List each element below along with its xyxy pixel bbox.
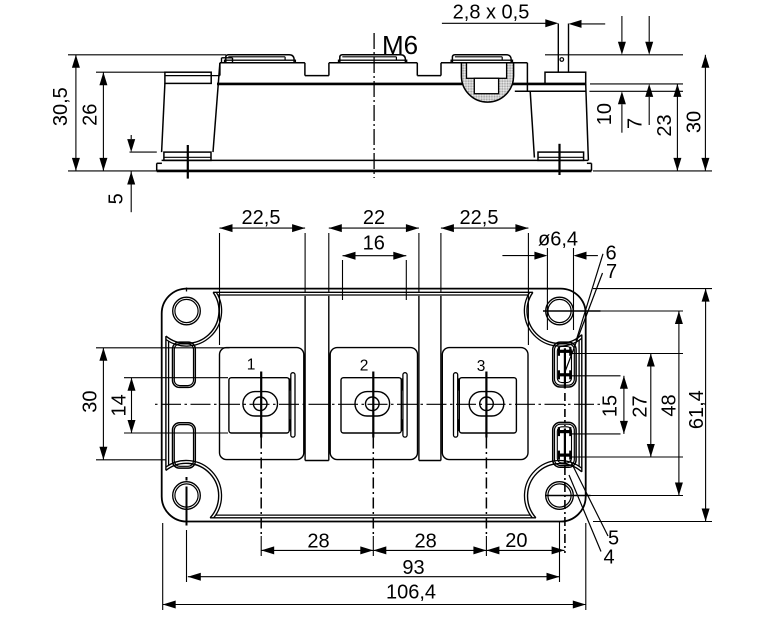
svg-text:22,5: 22,5 (460, 207, 499, 229)
dimension 93 (188, 576, 560, 578)
svg-text:48: 48 (658, 394, 680, 416)
side view: fast-on blade terminal 2,8x0,5 (557, 24, 559, 72)
side view: left mounting foot (164, 152, 211, 160)
side view: right case wall (inner, drafted) (530, 91, 534, 157)
svg-text:30,5: 30,5 (50, 87, 72, 126)
svg-text:27: 27 (629, 395, 651, 417)
side right dims: case edge extension (590, 83, 683, 85)
dimension 106,4 (163, 604, 586, 606)
dimension o6,4 arrows (502, 255, 534, 257)
side view: case top front edge (217, 83, 586, 86)
dimension 26 (102, 72, 104, 171)
svg-text:106,4: 106,4 (386, 582, 436, 604)
plan: upper auxiliary terminal block (553, 342, 576, 387)
dimension 27 (650, 354, 652, 458)
dimension 22,5 right ext lines (440, 233, 442, 293)
dimension 10 upper arrow (621, 16, 623, 42)
dimension 30 (side) (704, 55, 706, 171)
plan: mounting hole 4 o6.4 (546, 482, 574, 510)
side view: plateau segment 1 top (220, 62, 305, 64)
svg-text:10: 10 (594, 103, 616, 125)
plan: mounting hole 3 o6.4 (173, 482, 201, 510)
side view: case bottom edge (162, 159, 589, 161)
plan: bottom-left hole vertical centerline (186, 477, 188, 481)
dimension 5 foot line (130, 151, 157, 153)
label 7 leader (565, 273, 602, 371)
side right dims: baseplate bottom extension (593, 170, 712, 172)
side view: M6 thread centerline (373, 33, 375, 178)
svg-text:30: 30 (683, 111, 705, 133)
label 5 leader (570, 460, 608, 536)
dimension 30 (plan) (102, 348, 104, 460)
plan: mounting hole 2 o6.4 (546, 297, 574, 325)
svg-text:16: 16 (363, 233, 385, 255)
dimension 22,5 right (441, 227, 529, 229)
svg-text:2: 2 (360, 358, 369, 375)
dimension 61,4 ext lines (593, 288, 712, 290)
plan: top-right hole horizontal centerline (543, 310, 601, 312)
dimension 7 upper arrow (648, 16, 650, 42)
dimension 16 (343, 255, 407, 257)
dimension 5 upper arrow (130, 135, 132, 139)
dimension 28/28/20 ext lines (162, 523, 164, 610)
plan: terminal 1 vertical centerline (260, 372, 262, 438)
dimension 48 (678, 311, 680, 496)
svg-text:15: 15 (600, 395, 622, 417)
side right dims: top extension line (545, 54, 683, 56)
side view: left case wall (inner, drafted) (213, 63, 220, 152)
dimension 30,5 (75, 55, 77, 171)
side view: left flange tab (165, 72, 211, 83)
plan: terminal 3 plate and screw (459, 378, 516, 433)
side view: right flange tab (545, 72, 586, 84)
side view: right case section top (515, 90, 586, 92)
dimension 22,5 left ext lines (219, 233, 221, 345)
side view: right mounting screw centerline (558, 144, 560, 175)
plan: terminal 2 vertical centerline (372, 372, 374, 438)
plan: bottom-right hole vertical extension (559, 522, 561, 583)
side view: terminal 1 screw clamp cap (225, 60, 296, 63)
side view: terminal 3 screw clamp cap (451, 60, 512, 63)
svg-text:23: 23 (654, 114, 676, 136)
dimension 20 (486, 549, 564, 551)
svg-text:61,4: 61,4 (686, 390, 708, 429)
plan: terminal 2 plate and screw (341, 378, 401, 433)
plan: terminal zone 3 box (442, 348, 528, 460)
svg-text:3: 3 (477, 358, 486, 375)
dimension 7 lower arrow (648, 97, 650, 125)
plan: case inner contour (upper step, inner line) (218, 294, 528, 296)
plan: top-left hole centerline dot (186, 288, 188, 292)
svg-text:1: 1 (247, 357, 256, 374)
dimension 23 (676, 84, 678, 171)
side view: case top behind left tab (165, 75, 220, 77)
plan: module outer outline (162, 289, 586, 522)
svg-text:28: 28 (307, 531, 329, 553)
svg-text:5: 5 (105, 193, 127, 204)
plan: lower auxiliary terminal block (553, 422, 576, 467)
side view: left case wall (outer, drafted) (162, 83, 165, 152)
plan: left auxiliary slot 2 (173, 423, 196, 468)
label 6 leader (576, 254, 603, 341)
plan: terminal 1 plate and screw (229, 378, 289, 433)
plan: mounting hole 1 o6.4 (173, 297, 201, 325)
plan: terminal zone 1 box (220, 348, 304, 460)
dimension 61,4 (705, 289, 707, 522)
svg-text:30: 30 (79, 390, 101, 412)
svg-text:28: 28 (414, 531, 436, 553)
svg-text:ø6,4: ø6,4 (538, 229, 578, 251)
svg-text:7: 7 (606, 261, 617, 283)
side view: plateau segment 2 top (329, 62, 417, 64)
dimension 30,5 extension lines (68, 54, 226, 56)
plan: auxiliary terminals centerline (564, 348, 566, 388)
side view: baseplate outline (157, 170, 592, 173)
side view: left mounting screw centerline (187, 145, 189, 179)
plan: rib between zones 1-2 (304, 296, 306, 461)
dimension 16 ext lines (342, 260, 344, 300)
dimension 2,8x0,5 leader (442, 22, 546, 24)
dimension 10 lower arrow (621, 104, 623, 132)
dimension 28 (1) (261, 549, 373, 551)
svg-text:M6: M6 (382, 30, 418, 60)
dimension 28 (2) (373, 549, 486, 551)
svg-text:20: 20 (505, 530, 527, 552)
svg-text:2,8 x 0,5: 2,8 x 0,5 (453, 2, 530, 24)
svg-text:22: 22 (363, 207, 385, 229)
plan: terminal 3 vertical centerline (485, 372, 487, 438)
side view: terminal 2 screw clamp cap (339, 60, 407, 63)
dimension 2,8x0,5 right arrow (582, 23, 606, 25)
svg-text:14: 14 (108, 394, 130, 416)
dimension 22,5 left (220, 227, 306, 229)
dimension o6,4 ext lines (546, 248, 548, 330)
svg-text:4: 4 (603, 547, 614, 569)
side view: notch 2 (416, 63, 418, 76)
side view: notch 1 (304, 63, 306, 76)
side right dims: line at 91 extension (589, 90, 683, 92)
dimension 15 (623, 376, 625, 434)
plan: bottom-right hole horizontal centerline (545, 495, 591, 497)
side view: right case wall (outer, drafted) (586, 84, 589, 160)
dimension 5 lower arrow (130, 172, 132, 213)
dimension 26 extension line (96, 71, 165, 73)
pin extension lines right (571, 353, 683, 355)
svg-text:7: 7 (625, 118, 647, 129)
dimension 14 ext lines (124, 377, 228, 379)
dimension 30 ext lines (plan) (96, 347, 230, 349)
svg-text:93: 93 (402, 557, 424, 579)
plan: left auxiliary slot 1 (173, 342, 196, 387)
svg-text:22,5: 22,5 (242, 207, 281, 229)
plan: rib between zones 2-3 (418, 296, 420, 461)
side view: small boss at plateau left end (221, 58, 223, 63)
label 4 leader (569, 475, 601, 552)
plan: module horizontal centerline (155, 403, 600, 405)
svg-text:26: 26 (79, 104, 101, 126)
dimension 22 ext lines (328, 233, 330, 293)
dimension 22 (329, 227, 419, 229)
side view: right mounting foot (538, 152, 584, 160)
plan: terminal zone 2 box (330, 348, 417, 460)
side view: plateau segment 3 top (441, 62, 527, 64)
plan: case inner contour (upper step, outer line) (213, 291, 533, 293)
dimension 14 (131, 378, 133, 433)
